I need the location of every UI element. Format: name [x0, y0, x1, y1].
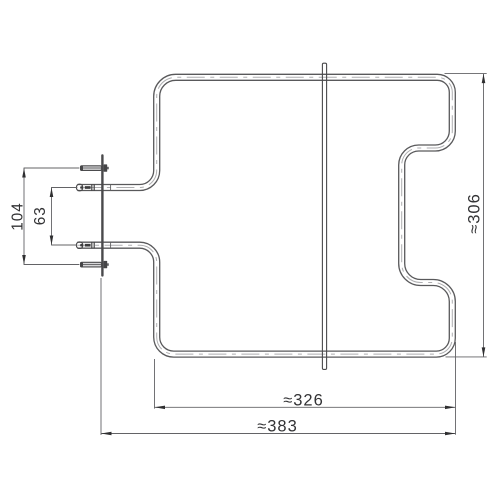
svg-text:≈383: ≈383 [257, 417, 298, 435]
svg-text:104: 104 [9, 202, 26, 231]
svg-text:≈326: ≈326 [283, 391, 324, 409]
svg-text:≈306: ≈306 [466, 193, 484, 234]
svg-text:63: 63 [32, 206, 49, 225]
